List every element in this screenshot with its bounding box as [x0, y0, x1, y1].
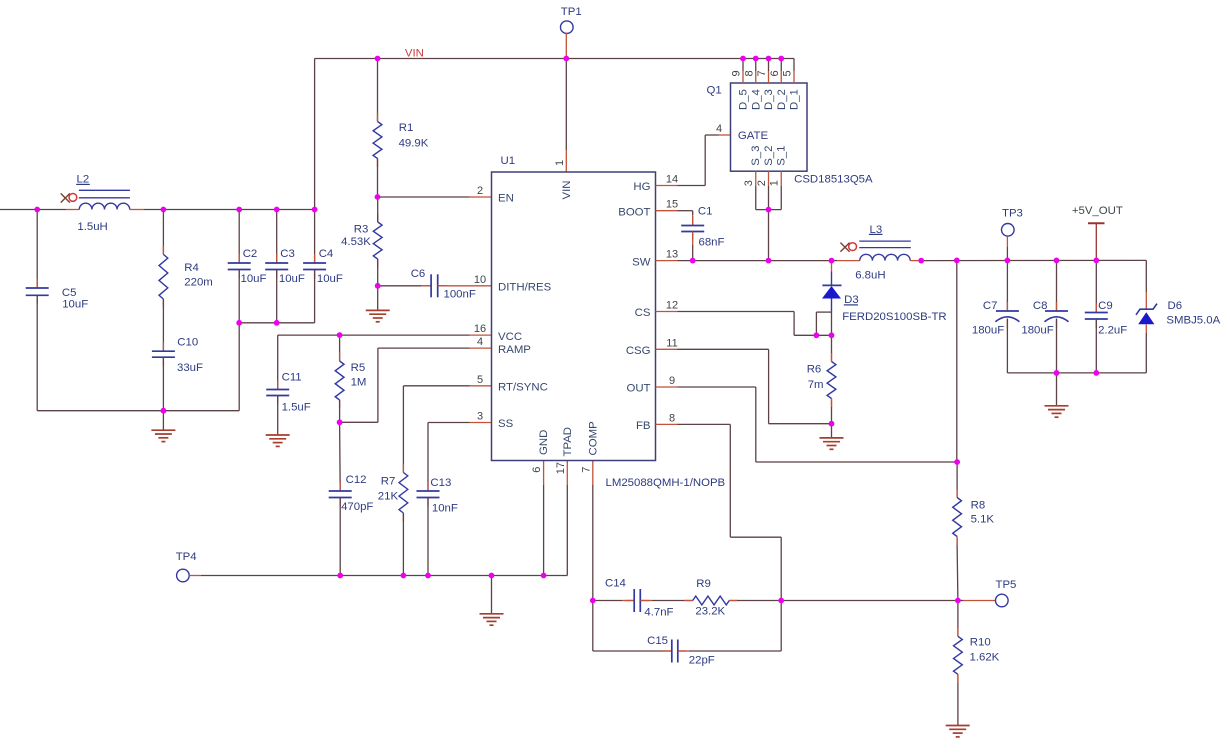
svg-text:100nF: 100nF — [444, 289, 476, 301]
svg-text:4.53K: 4.53K — [341, 236, 371, 248]
svg-text:C5: C5 — [62, 287, 77, 299]
svg-text:TP5: TP5 — [996, 579, 1017, 591]
svg-text:C14: C14 — [605, 578, 626, 590]
svg-text:22pF: 22pF — [689, 655, 715, 667]
svg-text:D_5: D_5 — [738, 89, 750, 110]
svg-text:FB: FB — [636, 420, 651, 432]
svg-text:C11: C11 — [282, 371, 302, 383]
svg-text:4: 4 — [477, 336, 483, 348]
svg-text:15: 15 — [666, 199, 678, 211]
svg-text:SW: SW — [632, 256, 651, 268]
svg-text:TP4: TP4 — [176, 551, 197, 563]
svg-text:2: 2 — [477, 185, 483, 197]
svg-text:CSD18513Q5A: CSD18513Q5A — [794, 173, 873, 185]
svg-text:14: 14 — [666, 174, 678, 186]
svg-text:S_3: S_3 — [750, 146, 762, 166]
svg-text:S_1: S_1 — [776, 146, 788, 166]
svg-text:VIN: VIN — [561, 181, 573, 200]
svg-text:4.7nF: 4.7nF — [644, 606, 673, 618]
svg-text:TP3: TP3 — [1002, 207, 1023, 219]
svg-text:R7: R7 — [381, 475, 396, 487]
svg-text:1: 1 — [554, 160, 566, 166]
svg-text:U1: U1 — [501, 155, 516, 167]
svg-text:1M: 1M — [351, 377, 367, 389]
svg-text:C1: C1 — [698, 206, 713, 218]
svg-text:1.62K: 1.62K — [970, 652, 1000, 664]
svg-text:OUT: OUT — [626, 383, 650, 395]
svg-text:Q1: Q1 — [707, 84, 722, 96]
svg-text:2: 2 — [756, 180, 768, 186]
svg-text:DITH/RES: DITH/RES — [498, 282, 552, 294]
svg-text:C13: C13 — [430, 477, 451, 489]
svg-text:GATE: GATE — [738, 130, 769, 142]
svg-text:R5: R5 — [351, 362, 366, 374]
svg-text:SMBJ5.0A: SMBJ5.0A — [1166, 315, 1220, 327]
svg-text:R1: R1 — [399, 122, 414, 134]
svg-text:10nF: 10nF — [432, 502, 458, 514]
svg-text:10uF: 10uF — [241, 273, 267, 285]
svg-text:RT/SYNC: RT/SYNC — [498, 382, 548, 394]
svg-text:33uF: 33uF — [177, 362, 203, 374]
svg-text:R3: R3 — [354, 223, 369, 235]
svg-text:C3: C3 — [280, 248, 295, 260]
svg-text:9: 9 — [669, 375, 675, 387]
svg-text:R4: R4 — [184, 262, 199, 274]
svg-text:D_3: D_3 — [763, 89, 775, 110]
svg-text:R10: R10 — [970, 637, 991, 649]
svg-text:10uF: 10uF — [279, 273, 305, 285]
svg-text:5: 5 — [782, 70, 794, 76]
svg-text:R6: R6 — [807, 363, 822, 375]
svg-text:3: 3 — [743, 180, 755, 186]
svg-text:4: 4 — [716, 123, 722, 135]
svg-text:GND: GND — [538, 430, 550, 455]
svg-text:LM25088QMH-1/NOPB: LM25088QMH-1/NOPB — [606, 477, 726, 489]
svg-text:10uF: 10uF — [62, 298, 88, 310]
svg-text:8: 8 — [669, 412, 675, 424]
svg-text:220m: 220m — [184, 277, 213, 289]
svg-text:5: 5 — [477, 374, 483, 386]
svg-text:C7: C7 — [983, 300, 998, 312]
svg-text:7m: 7m — [808, 379, 824, 391]
svg-text:C15: C15 — [647, 635, 668, 647]
svg-text:C8: C8 — [1033, 300, 1048, 312]
svg-text:7: 7 — [756, 70, 768, 76]
svg-text:FERD20S100SB-TR: FERD20S100SB-TR — [842, 311, 946, 323]
svg-text:TPAD: TPAD — [562, 427, 574, 457]
svg-text:C6: C6 — [411, 268, 426, 280]
svg-text:VCC: VCC — [498, 331, 522, 343]
svg-text:RAMP: RAMP — [498, 344, 531, 356]
svg-text:11: 11 — [666, 337, 677, 349]
svg-text:13: 13 — [666, 249, 678, 261]
svg-text:D6: D6 — [1168, 300, 1183, 312]
svg-text:1.5uF: 1.5uF — [282, 401, 311, 413]
svg-text:7: 7 — [580, 467, 592, 473]
svg-text:BOOT: BOOT — [618, 206, 650, 218]
svg-text:R8: R8 — [971, 500, 986, 512]
svg-text:8: 8 — [743, 70, 755, 76]
svg-text:D_1: D_1 — [789, 89, 801, 110]
svg-text:C10: C10 — [177, 337, 198, 349]
svg-text:6.8uH: 6.8uH — [855, 270, 885, 282]
svg-text:CS: CS — [635, 307, 651, 319]
svg-text:SS: SS — [498, 418, 514, 430]
svg-text:R9: R9 — [696, 578, 711, 590]
svg-text:470pF: 470pF — [341, 501, 373, 513]
svg-text:C4: C4 — [319, 248, 334, 260]
svg-text:16: 16 — [474, 323, 486, 335]
svg-text:+5V_OUT: +5V_OUT — [1072, 205, 1123, 217]
svg-text:C12: C12 — [346, 474, 367, 486]
svg-text:C2: C2 — [243, 248, 258, 260]
svg-text:68nF: 68nF — [699, 236, 725, 248]
svg-text:9: 9 — [731, 70, 743, 76]
svg-text:21K: 21K — [378, 490, 399, 502]
svg-text:C9: C9 — [1098, 300, 1113, 312]
svg-text:17: 17 — [555, 462, 567, 474]
svg-text:180uF: 180uF — [1021, 324, 1053, 336]
svg-text:23.2K: 23.2K — [695, 606, 725, 618]
svg-text:EN: EN — [498, 193, 514, 205]
svg-text:2.2uF: 2.2uF — [1098, 324, 1127, 336]
svg-text:10uF: 10uF — [317, 273, 343, 285]
svg-text:S_2: S_2 — [763, 146, 775, 166]
svg-text:D_2: D_2 — [776, 89, 788, 110]
svg-text:VIN: VIN — [405, 47, 424, 59]
svg-text:10: 10 — [474, 274, 486, 286]
svg-text:12: 12 — [666, 300, 678, 312]
svg-text:1: 1 — [769, 180, 781, 186]
svg-text:TP1: TP1 — [561, 6, 582, 18]
svg-text:COMP: COMP — [587, 421, 599, 455]
svg-text:CSG: CSG — [626, 345, 651, 357]
svg-text:49.9K: 49.9K — [399, 138, 429, 150]
svg-text:3: 3 — [477, 411, 483, 423]
svg-text:6: 6 — [769, 70, 781, 76]
svg-text:5.1K: 5.1K — [971, 514, 995, 526]
svg-text:180uF: 180uF — [972, 324, 1004, 336]
svg-text:1.5uH: 1.5uH — [77, 221, 107, 233]
svg-text:D_4: D_4 — [750, 89, 762, 110]
svg-text:HG: HG — [633, 181, 650, 193]
svg-text:6: 6 — [531, 467, 543, 473]
